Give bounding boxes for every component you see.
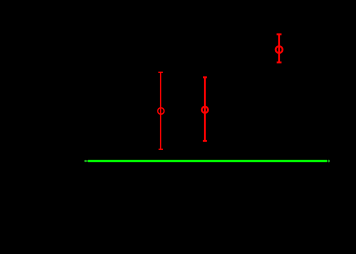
green horizontal reference line <box>84 160 330 163</box>
error bar 1 <box>158 72 164 149</box>
error bar 2 <box>202 77 208 141</box>
error bar 3 <box>276 34 283 62</box>
